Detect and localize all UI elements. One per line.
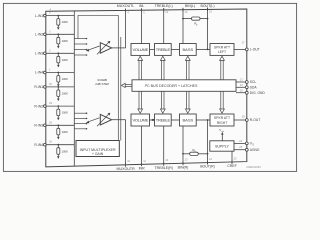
block I2C bus decoder latches — [132, 80, 236, 92]
mux selector arm right — [86, 118, 100, 124]
input pin L-IN1 with 100K resistor — [35, 11, 74, 30]
svg-text:SCL: SCL — [250, 80, 257, 84]
tick TREBLE(L) — [163, 8, 165, 11]
control arrow to bass R — [185, 91, 190, 113]
gain label 0/30dB 2dB STEP — [95, 78, 109, 86]
tick CREF — [231, 160, 233, 163]
svg-text:TREBLE: TREBLE — [156, 117, 171, 122]
wire bass-spkratt right — [196, 119, 210, 121]
wire treble-bass right — [171, 119, 179, 121]
wire volume-treble right — [150, 119, 156, 121]
block SPKR ATT RIGHT — [210, 114, 234, 126]
svg-text:R-IN1: R-IN1 — [34, 85, 43, 89]
control arrow to treble R — [160, 91, 165, 113]
svg-text:MUXOUTR: MUXOUTR — [117, 167, 136, 171]
control arrow to spkr att R — [220, 91, 225, 113]
control arrow to volume R — [138, 91, 143, 113]
svg-text:LEFT: LEFT — [218, 50, 226, 54]
pin MUXOUTL — [117, 4, 135, 14]
control arrow to volume L — [138, 56, 143, 80]
svg-text:BASS: BASS — [183, 117, 194, 122]
pin BIN(R) — [178, 126, 189, 169]
mux selector arm left — [86, 46, 100, 52]
control arrow to bass L — [185, 56, 190, 80]
pin INR — [139, 126, 147, 170]
pin BOUT(R) — [200, 120, 215, 169]
wire volume-treble left — [150, 48, 155, 50]
block VOLUME left — [131, 44, 150, 56]
svg-text:DIG. GND: DIG. GND — [250, 91, 266, 95]
svg-text:BASS: BASS — [183, 47, 194, 52]
block TREBLE left — [155, 44, 172, 56]
svg-text:TREBLE(R): TREBLE(R) — [154, 166, 172, 170]
input pin R-IN2 with 100K resistor — [34, 101, 74, 120]
control arrow to input mux — [121, 83, 132, 87]
pin BIN(L) — [183, 4, 195, 43]
block SUPPLY — [210, 141, 234, 151]
tick INL — [141, 8, 143, 11]
svg-text:BIN(L): BIN(L) — [185, 4, 195, 8]
input pin R-IN4 with 100K resistor — [34, 140, 74, 159]
svg-text:MUXOUTL: MUXOUTL — [117, 4, 135, 8]
pin SDA — [236, 83, 257, 90]
tick BOUT(R) — [207, 161, 209, 164]
mux contacts left channel — [74, 38, 87, 56]
pin TREBLE(L) — [155, 4, 173, 43]
block VOLUME right — [131, 114, 150, 126]
svg-text:TREBLE(L): TREBLE(L) — [155, 4, 173, 8]
svg-text:100K: 100K — [62, 58, 68, 62]
svg-text:INR: INR — [139, 166, 146, 170]
resistor Rb right — [182, 148, 208, 155]
svg-text:L-IN2: L-IN2 — [35, 33, 43, 37]
IC boundary box U1 — [46, 9, 247, 167]
tick BIN(R) — [182, 162, 184, 165]
wire MUXOUTR to amp output — [112, 120, 126, 167]
svg-text:2dB STEP: 2dB STEP — [95, 82, 109, 86]
pin INL — [139, 4, 145, 43]
control arrow to treble L — [160, 56, 165, 80]
svg-text:L-IN4: L-IN4 — [35, 71, 43, 75]
svg-text:INL: INL — [139, 4, 145, 8]
block TREBLE right — [155, 114, 172, 126]
mux contacts right channel — [74, 112, 87, 129]
tick MUXOUTR — [125, 163, 127, 166]
pin R-OUT — [234, 114, 260, 122]
pin MUXOUTR — [117, 159, 136, 171]
pin L-OUT — [234, 41, 260, 52]
pin SCL — [236, 78, 256, 85]
Vref arrow — [219, 128, 224, 141]
block BASS left — [180, 44, 197, 56]
op-amp input gain right — [97, 113, 112, 127]
svg-text:100K: 100K — [62, 92, 68, 96]
wire MUXOUTL to amp output — [112, 9, 126, 48]
tick BIN(L) — [182, 8, 184, 11]
svg-text:TREBLE: TREBLE — [156, 47, 171, 52]
svg-text:BIN(R): BIN(R) — [178, 165, 189, 169]
selector control line — [78, 15, 121, 140]
block BASS right — [180, 114, 197, 126]
tick BOUT(L) — [207, 8, 209, 11]
input pin R-IN3 with 100K resistor — [34, 120, 74, 139]
input pin R-IN1 with 100K resistor — [34, 82, 74, 101]
svg-text:RIGHT: RIGHT — [217, 121, 228, 125]
tick MUXOUTL — [125, 9, 127, 12]
svg-text:100K: 100K — [62, 111, 68, 115]
svg-text:R-IN2: R-IN2 — [34, 104, 43, 108]
svg-text:L-OUT: L-OUT — [250, 48, 260, 52]
svg-text:I2C BUS DECODER + LATCHES: I2C BUS DECODER + LATCHES — [145, 84, 198, 88]
svg-text:AGND: AGND — [250, 148, 260, 152]
svg-text:L-IN3: L-IN3 — [35, 52, 43, 56]
pin TREBLE(R) — [154, 126, 172, 170]
svg-text:BOUT(R): BOUT(R) — [200, 165, 215, 169]
input multiplexer gain label box — [76, 141, 119, 157]
svg-text:R-OUT: R-OUT — [250, 118, 260, 122]
svg-text:100K: 100K — [62, 130, 68, 134]
control arrow to spkr att L — [220, 56, 225, 80]
input pin L-IN3 with 100K resistor — [35, 48, 74, 67]
wire treble-bass left — [171, 48, 179, 50]
svg-text:SPKR ATT: SPKR ATT — [214, 46, 230, 50]
svg-text:100K: 100K — [62, 149, 68, 153]
svg-text:SDA: SDA — [250, 86, 258, 90]
svg-text:+ GAIN: + GAIN — [92, 152, 104, 156]
svg-text:R-IN4: R-IN4 — [34, 143, 43, 147]
svg-text:SPKR ATT: SPKR ATT — [214, 116, 230, 120]
svg-text:100K: 100K — [62, 77, 68, 81]
svg-text:CREF: CREF — [227, 164, 237, 168]
svg-text:D99AU1030: D99AU1030 — [247, 165, 262, 169]
pin VS — [234, 139, 254, 147]
svg-text:L-IN1: L-IN1 — [35, 14, 43, 18]
tick TREBLE(R) — [163, 162, 165, 165]
resistor Rb left — [182, 17, 208, 27]
border frame — [3, 3, 296, 171]
input multiplexer box right edge — [73, 11, 75, 166]
svg-text:100K: 100K — [62, 39, 68, 43]
svg-text:VOLUME: VOLUME — [132, 47, 148, 52]
svg-text:R-IN3: R-IN3 — [34, 124, 43, 128]
pin DIG GND — [236, 88, 265, 95]
svg-text:SUPPLY: SUPPLY — [215, 144, 230, 148]
pin AGND — [234, 145, 260, 152]
input pin L-IN2 with 100K resistor — [35, 29, 74, 48]
svg-text:ref: ref — [222, 130, 225, 133]
wire bass-spkratt left — [196, 49, 210, 51]
pin CREF — [227, 151, 237, 168]
block SPKR ATT LEFT — [210, 44, 234, 56]
svg-text:100K: 100K — [62, 20, 68, 24]
pin BOUT(L) — [201, 4, 215, 49]
svg-text:BOUT(L): BOUT(L) — [201, 4, 215, 8]
op-amp input gain left — [97, 41, 112, 55]
svg-text:VOLUME: VOLUME — [132, 117, 148, 122]
tick INR — [141, 163, 143, 166]
input pin L-IN4 with 100K resistor — [35, 68, 74, 87]
